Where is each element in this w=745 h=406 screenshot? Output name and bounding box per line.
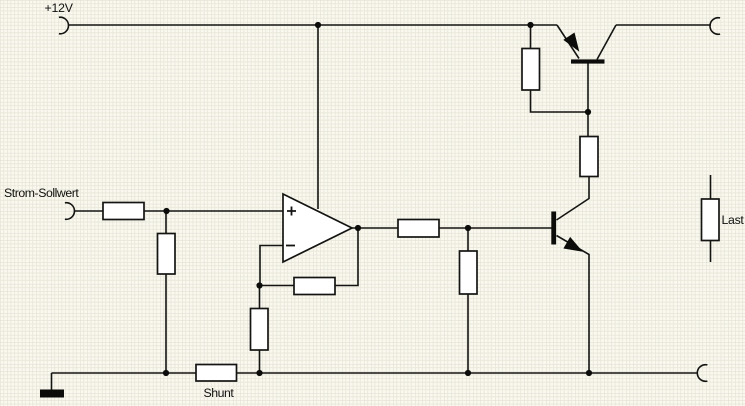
- transistor Q1 (PNP): [557, 25, 616, 64]
- wire opamp V+ supply from rail: [317, 25, 319, 209]
- svg-text:Last: Last: [722, 213, 745, 227]
- op-amp U1: [283, 194, 352, 262]
- resistor R4 (input divider): [158, 234, 176, 275]
- resistor R8 feedback: [294, 278, 335, 295]
- svg-text:Shunt: Shunt: [204, 386, 235, 400]
- wire R3 to opamp plus input: [144, 210, 283, 212]
- resistor R7 (NPN base divider): [460, 251, 478, 294]
- resistor R5 (feedback lower): [251, 309, 269, 351]
- svg-text:+12V: +12V: [45, 1, 74, 15]
- resistor R1 (PNP base pull-up): [522, 49, 540, 91]
- ground: [40, 390, 64, 398]
- wire Last resistor top: [710, 175, 712, 199]
- connector +12V (left): [59, 17, 69, 34]
- resistor R3 (input series): [103, 203, 144, 220]
- wire R1 top: [530, 25, 532, 49]
- transistor Q2 (NPN): [551, 212, 581, 252]
- wire Last resistor bottom: [710, 241, 712, 263]
- wire feedback right to output: [335, 228, 358, 286]
- resistor R2 (NPN collector to PNP base): [580, 137, 598, 177]
- wire opamp output: [352, 227, 398, 229]
- resistor R6 (opamp output series): [398, 220, 439, 238]
- node rail/opamp supply: [315, 22, 321, 28]
- node rail/NPN emitter: [586, 370, 592, 376]
- svg-text:Strom-Sollwert: Strom-Sollwert: [4, 186, 79, 200]
- resistor R9 Shunt: [196, 365, 237, 382]
- node minus input: [256, 282, 262, 288]
- wire R4 bottom: [165, 274, 167, 373]
- wire R7 bottom: [467, 294, 469, 373]
- wire NPN emitter to bottom rail: [557, 236, 590, 374]
- connector output bottom right: [697, 365, 707, 382]
- node rail/R1: [527, 22, 533, 28]
- wire R4 top: [165, 211, 167, 234]
- node rail/R7: [465, 370, 471, 376]
- wire R7 top: [467, 228, 469, 251]
- wire Strom-Sollwert input: [74, 210, 103, 212]
- node rail/R4: [163, 370, 169, 376]
- wire PNP collector to right connector: [616, 24, 711, 26]
- wire opamp minus input: [260, 246, 283, 286]
- connector output top right: [710, 18, 720, 35]
- wire R6 to NPN base: [439, 227, 552, 229]
- node PNP base: [585, 109, 591, 115]
- wire R5 bottom: [259, 350, 261, 373]
- wire R2 to NPN collector: [557, 177, 590, 221]
- resistor R10 Last (load): [702, 199, 720, 241]
- node NPN base divider: [465, 225, 471, 231]
- connector Strom-Sollwert (left): [65, 203, 75, 220]
- wire bottom rail: [52, 372, 698, 374]
- wire feedback left: [260, 285, 294, 287]
- wire top rail +12V: [68, 24, 557, 26]
- wire R5 top: [259, 286, 261, 309]
- node plus input: [163, 208, 169, 214]
- wire ground stub: [51, 373, 53, 390]
- wire PNP base lead: [587, 64, 589, 137]
- node rail/R5 shunt: [256, 370, 262, 376]
- wire R1 bottom: [531, 90, 589, 112]
- node opamp output: [355, 225, 361, 231]
